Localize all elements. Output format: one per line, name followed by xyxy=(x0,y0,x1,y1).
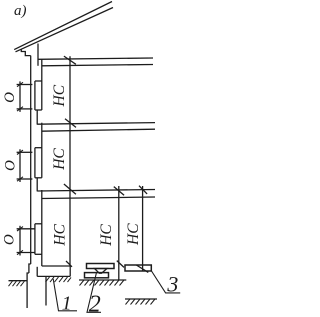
svg-text:НС: НС xyxy=(52,223,69,246)
dimension line O storey 2 xyxy=(19,149,21,182)
dimension extension lines storey 3 xyxy=(17,228,35,230)
wall inner face at lintel storey 2 xyxy=(41,123,43,178)
svg-text:О: О xyxy=(2,234,18,245)
ground line right xyxy=(125,298,157,300)
slash wall A bottom xyxy=(117,261,124,268)
ground hatch under slab band xyxy=(46,277,72,282)
roof upper line xyxy=(14,2,112,50)
svg-text:О: О xyxy=(2,92,18,103)
plinth step 1 xyxy=(29,264,31,273)
plinth step 2 xyxy=(27,273,29,308)
ground hatch middle xyxy=(80,280,125,286)
window box storey 1 left jamb xyxy=(34,81,36,110)
ground slab band top xyxy=(42,265,70,267)
floor slab 2 bottom line xyxy=(42,129,156,131)
leader line 2 xyxy=(87,273,101,313)
dimension line O storey 3 xyxy=(19,226,21,256)
basement wall right line xyxy=(45,277,47,306)
floor slab 1 top line xyxy=(38,58,153,59)
svg-text:а): а) xyxy=(14,3,27,19)
wall inner face below window 1 xyxy=(36,110,38,125)
wall inner face below window 2 xyxy=(36,178,38,192)
floor slab 2 top line xyxy=(37,123,155,125)
ground line left xyxy=(9,280,28,282)
floor slab 3 bottom line xyxy=(42,197,156,199)
dimension extension lines storey 2 xyxy=(17,151,33,153)
window box storey 2 left jamb xyxy=(34,148,36,178)
svg-text:НС: НС xyxy=(51,148,68,171)
dimension extension lines storey 1 xyxy=(17,84,33,86)
window box storey 1 head xyxy=(35,80,42,82)
leader line 1 xyxy=(53,279,77,311)
eaves step xyxy=(21,49,30,55)
ground hatch right xyxy=(126,299,156,305)
inner wall line xyxy=(69,56,71,266)
ground line middle xyxy=(79,279,126,281)
floor slab 3 top line xyxy=(37,190,155,192)
wall inner face upper segment xyxy=(37,44,39,66)
svg-text:НС: НС xyxy=(51,84,68,107)
wall outer face line xyxy=(30,56,32,264)
support slash at ground slab xyxy=(66,261,72,267)
pedestal cap plate xyxy=(87,264,115,269)
wall inner face at lintel storey 1 xyxy=(41,59,43,110)
ground slab band right cap xyxy=(69,266,71,276)
bracket pad wall B xyxy=(125,265,151,271)
self-supporting wall A xyxy=(118,186,120,280)
slash wall B bottom xyxy=(136,265,148,272)
wall inner face at lintel storey 3 xyxy=(41,190,43,266)
ground slab band bottom xyxy=(37,275,70,277)
window box storey 2 head xyxy=(35,147,42,149)
roof lower line xyxy=(16,8,114,52)
window box storey 3 sill xyxy=(35,253,42,255)
ground slab band left cap xyxy=(36,267,38,277)
window box storey 3 head xyxy=(35,223,42,225)
dimension line O storey 1 xyxy=(19,81,21,112)
leader line 3 xyxy=(152,271,181,293)
support slash at slab 1 xyxy=(64,56,76,64)
pedestal stem xyxy=(95,269,108,274)
svg-text:1: 1 xyxy=(62,293,72,315)
svg-text:НС: НС xyxy=(98,224,115,247)
pedestal base pad xyxy=(85,273,109,278)
svg-text:О: О xyxy=(2,160,18,171)
support slash at slab 3 xyxy=(64,184,76,194)
floor slab 1 bottom line xyxy=(42,65,154,66)
ground hatch left xyxy=(9,281,25,286)
window box storey 1 sill xyxy=(35,109,42,111)
svg-text:НС: НС xyxy=(125,223,142,246)
svg-text:2: 2 xyxy=(89,292,101,317)
window box storey 3 left jamb xyxy=(34,224,36,255)
svg-text:3: 3 xyxy=(166,272,178,297)
window box storey 2 sill xyxy=(35,177,42,179)
curtain wall B xyxy=(142,186,144,271)
slash wall B top xyxy=(139,186,147,194)
support slash at slab 2 xyxy=(65,119,76,128)
slash wall A top xyxy=(114,187,124,196)
